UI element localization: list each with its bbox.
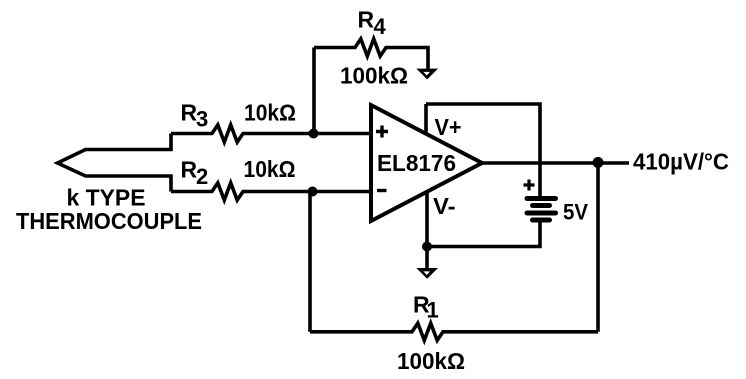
ground (V-): [425, 247, 429, 271]
svg-text:100kΩ: 100kΩ: [397, 348, 465, 374]
resistor R2: [171, 183, 371, 200]
resistor R3: [171, 125, 371, 142]
label + input: [376, 126, 388, 138]
node V- junction: [422, 242, 432, 252]
svg-text:5V: 5V: [563, 200, 588, 225]
wire V+ rail: [426, 104, 540, 198]
svg-text:2: 2: [196, 164, 208, 189]
op-amp U1 EL8176: [371, 105, 482, 221]
svg-text:EL8176: EL8176: [377, 150, 456, 176]
svg-text:1: 1: [427, 298, 439, 323]
wire feedback left vertical: [308, 192, 312, 332]
node - input junction: [308, 187, 318, 197]
resistor R1: [310, 323, 598, 340]
svg-text:R: R: [181, 99, 198, 125]
ground (R4): [416, 69, 438, 80]
wire feedback right vertical: [596, 163, 600, 332]
node + input junction: [309, 129, 319, 139]
svg-text:R: R: [358, 7, 375, 33]
resistor R4: [314, 39, 428, 71]
thermocouple TC: [58, 134, 172, 192]
wire R4 left vertical: [312, 48, 316, 134]
svg-text:410µV/°C: 410µV/°C: [633, 148, 729, 174]
battery BT1: [527, 199, 556, 221]
wire output: [482, 161, 629, 165]
svg-text:k TYPE: k TYPE: [67, 185, 146, 211]
pin V+ wire: [424, 104, 428, 134]
pin V- wire: [425, 193, 429, 247]
label + (battery): [524, 180, 535, 191]
svg-text:V-: V-: [433, 193, 456, 219]
svg-text:3: 3: [196, 107, 208, 132]
svg-text:10kΩ: 10kΩ: [244, 100, 296, 126]
svg-text:THERMOCOUPLE: THERMOCOUPLE: [16, 208, 202, 234]
svg-text:R: R: [181, 157, 198, 183]
wire battery bottom: [427, 220, 540, 247]
label - input: [377, 189, 387, 192]
svg-text:4: 4: [374, 14, 387, 39]
svg-text:100kΩ: 100kΩ: [340, 62, 408, 88]
svg-text:V+: V+: [435, 114, 462, 140]
node output junction: [593, 157, 604, 168]
svg-text:10kΩ: 10kΩ: [244, 156, 296, 182]
